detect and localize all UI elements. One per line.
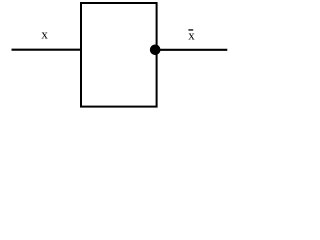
- svg-text:x: x: [41, 27, 48, 42]
